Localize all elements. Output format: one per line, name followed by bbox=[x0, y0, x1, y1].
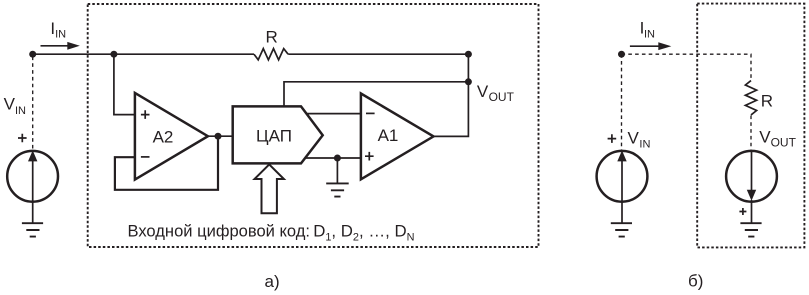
junction node: input node (a) bbox=[29, 51, 36, 58]
svg-text:ЦАП: ЦАП bbox=[256, 127, 292, 146]
wire: top node down to A2 non-inverting input bbox=[114, 54, 136, 114]
wire: A2 output to DAC input bbox=[207, 135, 233, 137]
svg-text:A2: A2 bbox=[153, 128, 174, 147]
arrow inside Vin source (a) bbox=[32, 158, 34, 223]
svg-text:а): а) bbox=[265, 272, 280, 291]
ground under Vout source (b) bbox=[740, 223, 761, 236]
wire: A2 feedback loop output to inverting input bbox=[115, 136, 218, 190]
ground under Vin source (a) bbox=[22, 223, 43, 236]
ground under Vin source (b) bbox=[611, 223, 632, 236]
plus sign of Vin source (b) bbox=[608, 134, 617, 143]
dashed box (a) bbox=[88, 4, 539, 247]
dashed box (b) bbox=[697, 4, 804, 248]
wire: resistor R right to Vout node bbox=[288, 53, 468, 55]
A1 plus input sign bbox=[365, 152, 374, 161]
voltage source V_IN (a) circle bbox=[7, 151, 58, 202]
wire: input node to resistor R left bbox=[33, 53, 254, 55]
resistor R (b) vertical zigzag bbox=[745, 81, 756, 115]
wire (dashed): node down to Vin source (b) bbox=[621, 54, 623, 150]
svg-text:OUT: OUT bbox=[489, 90, 515, 104]
wire (dashed): Vin source to input node bbox=[32, 57, 34, 151]
svg-text:R: R bbox=[266, 27, 278, 46]
resistor R1 (a) zigzag bbox=[254, 49, 288, 60]
svg-text:IN: IN bbox=[55, 29, 66, 41]
junction node: Vout feedback bbox=[465, 78, 472, 85]
ground between DAC and A1 bbox=[326, 183, 349, 196]
voltage source V_IN (b) circle bbox=[597, 151, 648, 202]
svg-text:V: V bbox=[759, 128, 771, 147]
wire: DAC output to A1 inverting input bbox=[303, 113, 362, 115]
A1 minus input sign bbox=[366, 112, 375, 114]
arrow inside Vin source (b) bbox=[621, 158, 623, 223]
A2 plus input sign bbox=[141, 110, 150, 119]
svg-text:IN: IN bbox=[644, 29, 655, 41]
junction node: Vout top bbox=[465, 51, 472, 58]
hollow arrow: digital input to DAC bbox=[255, 164, 284, 213]
svg-text:OUT: OUT bbox=[771, 135, 797, 149]
wire: DAC top terminal up and right to Vout node bbox=[284, 82, 468, 107]
voltage source V_OUT (b) circle bbox=[726, 151, 777, 202]
junction node: A2 + branch bbox=[110, 51, 117, 58]
arrow inside Vout source (b), pointing down bbox=[751, 151, 753, 191]
svg-text:V: V bbox=[628, 129, 640, 148]
junction node (b) bbox=[618, 51, 625, 58]
op-amp A2 triangle bbox=[135, 93, 208, 180]
plus sign of Vin source (a) bbox=[18, 134, 27, 143]
svg-text:б): б) bbox=[688, 271, 703, 290]
svg-text:Входной цифровой код:: Входной цифровой код: bbox=[128, 221, 311, 240]
current arrow I_IN (b) bbox=[630, 45, 659, 47]
op-amp A1 triangle bbox=[361, 94, 434, 180]
svg-text:A1: A1 bbox=[378, 126, 399, 145]
svg-text:IN: IN bbox=[15, 105, 26, 117]
wire (dashed): resistor to Vout source (b) bbox=[750, 116, 752, 151]
current arrow I_IN (a) bbox=[41, 45, 69, 47]
svg-text:V: V bbox=[477, 82, 489, 101]
junction node: A2 output bbox=[215, 133, 222, 140]
svg-text:R: R bbox=[761, 91, 773, 110]
svg-text:IN: IN bbox=[639, 138, 650, 150]
A2 minus input sign bbox=[141, 156, 150, 158]
svg-text:V: V bbox=[4, 94, 16, 113]
wire: ground stem at A1 + node bbox=[336, 158, 338, 183]
wire (dashed): node to resistor branch (b) bbox=[622, 54, 752, 80]
wire: DAC bottom terminal to A1 non-inverting input bbox=[302, 157, 362, 159]
DAC block (ЦАП) pentagon bbox=[233, 106, 323, 163]
plus sign of Vout source (b) bbox=[739, 208, 746, 215]
wire: A1 output up to Vout node bbox=[434, 54, 469, 136]
junction node: A1 + ground bbox=[334, 155, 341, 162]
